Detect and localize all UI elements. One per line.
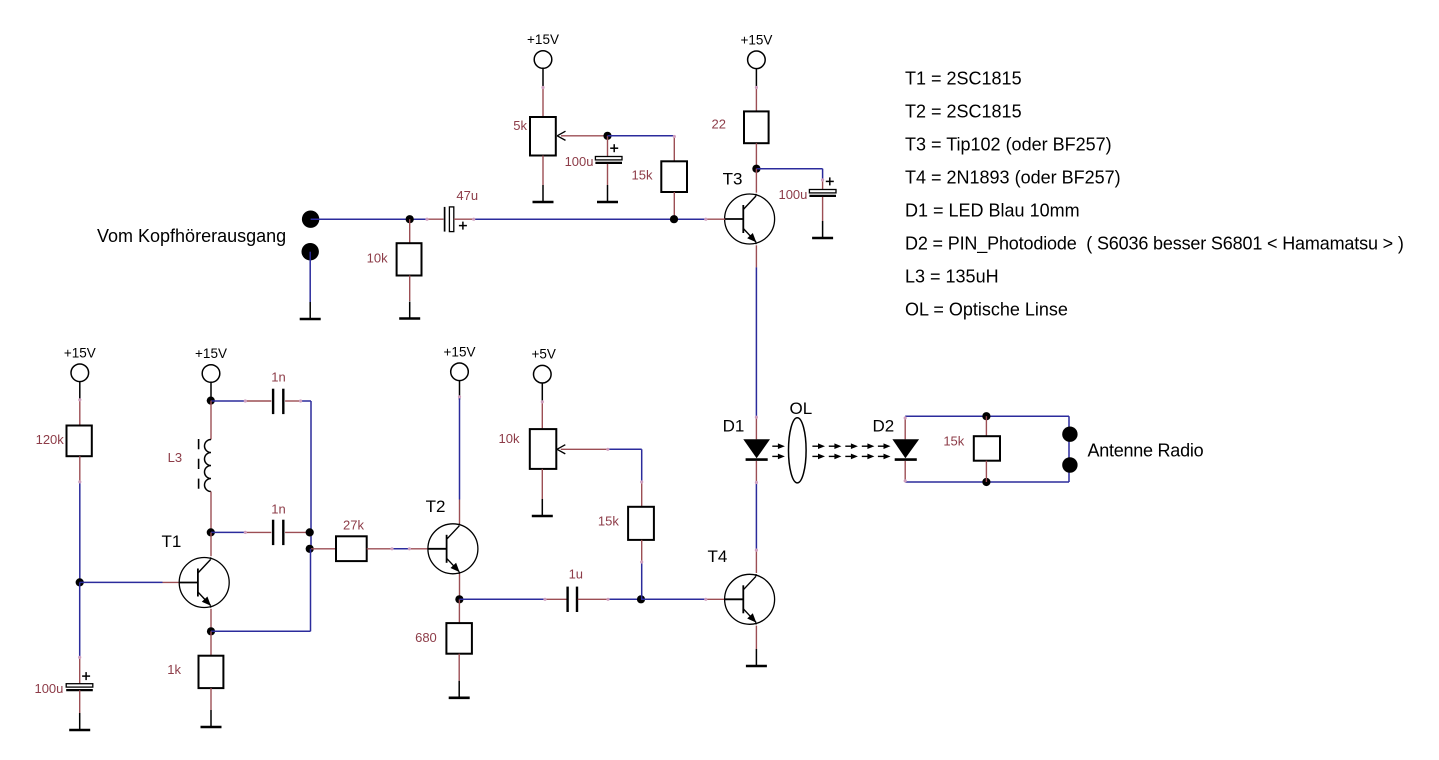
svg-text:L3 = 135uH: L3 = 135uH	[905, 266, 999, 286]
pin T2 base	[409, 548, 428, 550]
svg-text:27k: 27k	[343, 518, 364, 533]
svg-text:Vom Kopfhörerausgang: Vom Kopfhörerausgang	[97, 226, 286, 246]
wire T3 emitter to D1	[755, 267, 757, 417]
ground 680	[458, 681, 460, 698]
ground 100u T3	[822, 221, 824, 238]
svg-text:T1 = 2SC1815: T1 = 2SC1815	[905, 68, 1022, 88]
wire wiper to 15k	[608, 135, 675, 137]
node feedback top	[306, 528, 314, 536]
pin T4 collector	[755, 550, 757, 573]
pin to 22	[755, 88, 757, 112]
pin T1 emitter	[210, 609, 212, 632]
ground 100u top	[607, 185, 609, 202]
antenna terminal top	[1062, 427, 1077, 442]
svg-text:1u: 1u	[569, 566, 583, 581]
svg-text:10k: 10k	[499, 431, 520, 446]
wire terminal B down	[309, 252, 311, 302]
parts list text	[905, 68, 1404, 319]
resistor R-15k mid	[641, 482, 643, 507]
ground 100u left	[79, 713, 81, 730]
svg-text:+15V: +15V	[740, 32, 772, 47]
svg-text:T1: T1	[162, 532, 182, 551]
svg-text:D2 = PIN_Photodiode ( S6036 b: D2 = PIN_Photodiode ( S6036 besser S6801…	[905, 233, 1404, 254]
wire 47u to T3 base	[474, 218, 706, 220]
node L3 bottom junction	[207, 528, 215, 536]
resistor R-680	[458, 599, 460, 623]
pin 1u left	[545, 598, 567, 600]
transistor T1	[179, 557, 229, 607]
wire junction to T4 base	[641, 598, 706, 600]
capacitor C-47u	[444, 207, 446, 232]
svg-text:D1: D1	[723, 416, 745, 435]
resistor R-15k top	[673, 137, 675, 162]
pin to 5k pot	[542, 88, 544, 118]
ground input	[309, 302, 311, 319]
node 15k top junction	[982, 412, 990, 420]
pin 10k pot to ground	[541, 469, 543, 499]
wire wiper to 15k mid	[608, 448, 642, 450]
svg-text:+5V: +5V	[531, 347, 555, 362]
resistor R-27k	[336, 536, 367, 561]
svg-text:22: 22	[712, 116, 726, 131]
wire junction to 1n-2	[211, 531, 245, 533]
svg-text:5k: 5k	[513, 118, 527, 133]
pin end markers	[78, 86, 907, 659]
svg-text:1n: 1n	[271, 502, 285, 517]
pin T3 base	[706, 218, 725, 220]
pin T2 emitter	[459, 574, 461, 600]
pin T3 emitter	[755, 245, 757, 267]
potentiometer 10k	[530, 429, 557, 469]
svg-text:120k: 120k	[36, 432, 65, 447]
pin to 10k pot	[541, 402, 543, 429]
plus 47u	[459, 225, 467, 227]
ground 10k	[409, 302, 411, 319]
svg-text:Antenne Radio: Antenne Radio	[1088, 440, 1204, 460]
optical lens OL	[789, 418, 807, 483]
svg-text:100u: 100u	[565, 154, 594, 169]
resistor R-15k antenna	[985, 416, 987, 436]
node 15k bottom junction	[982, 478, 990, 486]
ground 10k pot	[541, 499, 543, 516]
resistor R-22	[744, 111, 769, 143]
pin T4 emitter	[755, 626, 757, 649]
pin 5k to ground	[542, 156, 544, 186]
svg-text:+15V: +15V	[195, 346, 227, 361]
transistor T3	[725, 194, 775, 244]
wire 1n-1 to feedback column	[301, 400, 311, 402]
svg-text:D1 = LED Blau 10mm: D1 = LED Blau 10mm	[905, 200, 1080, 220]
svg-text:15k: 15k	[598, 514, 619, 529]
L3 core dashed line	[198, 439, 200, 490]
wire input to 47u cap	[311, 218, 427, 220]
svg-text:100u: 100u	[34, 681, 63, 696]
svg-text:T2: T2	[426, 497, 446, 516]
svg-text:L3: L3	[168, 450, 182, 465]
pot 5k wiper arrow	[561, 135, 608, 137]
ground 1k	[210, 710, 212, 727]
svg-text:1n: 1n	[271, 370, 285, 385]
node feedback bottom	[306, 545, 314, 553]
wire 1u to junction	[608, 598, 641, 600]
svg-text:47u: 47u	[456, 188, 478, 203]
D1 light arrows	[772, 445, 779, 447]
pin to 120k	[79, 400, 81, 426]
pin T2 collector	[459, 500, 461, 524]
antenna terminal bottom	[1062, 457, 1077, 472]
inductor L3	[210, 401, 212, 440]
svg-text:D2: D2	[873, 416, 895, 435]
svg-text:+15V: +15V	[527, 32, 559, 47]
wire 120k to base node	[79, 456, 81, 482]
node T2 emitter junction	[455, 595, 463, 603]
capacitor C-1n bottom	[272, 520, 274, 545]
svg-text:15k: 15k	[943, 433, 964, 448]
capacitor C-100u left	[79, 657, 81, 683]
node wiper junction	[603, 132, 611, 140]
node 1u/15k junction	[637, 595, 645, 603]
node junction input/10k	[406, 215, 414, 223]
transistor T4	[725, 574, 775, 624]
ground T4	[755, 649, 757, 666]
capacitor C-1n top	[272, 389, 274, 414]
pin 27k left	[311, 548, 336, 550]
pin T1 collector	[210, 532, 212, 556]
node T3 collector junction	[752, 165, 760, 173]
svg-text:100u: 100u	[778, 187, 807, 202]
pin T1 base	[163, 581, 180, 583]
capacitor C-100u T3	[822, 180, 824, 190]
ground 5k	[542, 185, 544, 202]
svg-text:680: 680	[415, 630, 437, 645]
plus 100u top	[610, 147, 618, 149]
node T1 emitter junction	[207, 627, 215, 635]
resistor R-1k	[210, 631, 212, 655]
resistor R-120k	[67, 426, 92, 457]
input terminal bottom	[302, 243, 319, 260]
svg-text:OL: OL	[790, 399, 813, 418]
svg-text:15k: 15k	[632, 167, 653, 182]
plus 100u T3	[826, 180, 834, 182]
LED D1	[755, 417, 757, 439]
wire junction to 100u T3	[756, 168, 822, 170]
node L3 top junction	[207, 397, 215, 405]
svg-text:T2 = 2SC1815: T2 = 2SC1815	[905, 101, 1022, 121]
wire junction to 1n-1	[211, 400, 245, 402]
wire D2 loop top	[905, 415, 1069, 417]
input terminal top	[302, 211, 319, 228]
node base junction	[76, 578, 84, 586]
potentiometer 5k	[530, 117, 556, 156]
wire D2 loop right	[1068, 416, 1070, 482]
svg-text:T4: T4	[708, 547, 728, 566]
wire T2 emitter to 1u	[459, 598, 545, 600]
wire +15V to T2 collector	[459, 397, 461, 500]
svg-text:T3: T3	[723, 170, 743, 189]
photodiode D2	[904, 418, 906, 439]
wire node down to 100u	[79, 582, 81, 657]
svg-text:T3 = Tip102 (oder BF257): T3 = Tip102 (oder BF257)	[905, 134, 1112, 154]
wire 15k mid to junction	[641, 562, 643, 599]
wire node to T1 base	[80, 581, 163, 583]
wire emitter feedback	[211, 630, 311, 632]
svg-text:T4 = 2N1893 (oder BF257): T4 = 2N1893 (oder BF257)	[905, 167, 1121, 187]
pin 47u left	[427, 218, 444, 220]
svg-text:+15V: +15V	[444, 344, 476, 359]
capacitor C-1u	[566, 587, 568, 612]
svg-text:OL = Optische Linse: OL = Optische Linse	[905, 299, 1068, 319]
wire D2 loop bottom	[905, 481, 1069, 483]
resistor R-10k input	[409, 219, 411, 243]
svg-text:1k: 1k	[167, 662, 181, 677]
pin 27k right	[367, 548, 392, 550]
transistor T2	[428, 524, 478, 574]
capacitor C-100u top	[607, 136, 609, 157]
svg-text:+15V: +15V	[64, 345, 96, 360]
pin T3 collector	[755, 169, 757, 193]
svg-text:10k: 10k	[367, 251, 388, 266]
pin 1u right	[578, 598, 608, 600]
pin T4 base	[706, 598, 725, 600]
wire D1 to T4 collector	[755, 483, 757, 551]
node 15k/main wire junction	[670, 215, 678, 223]
plus 100u left	[82, 675, 90, 677]
wire 27k to T2 base	[392, 548, 409, 550]
pot 10k wiper arrow	[561, 448, 608, 450]
light beam arrows	[812, 445, 819, 447]
